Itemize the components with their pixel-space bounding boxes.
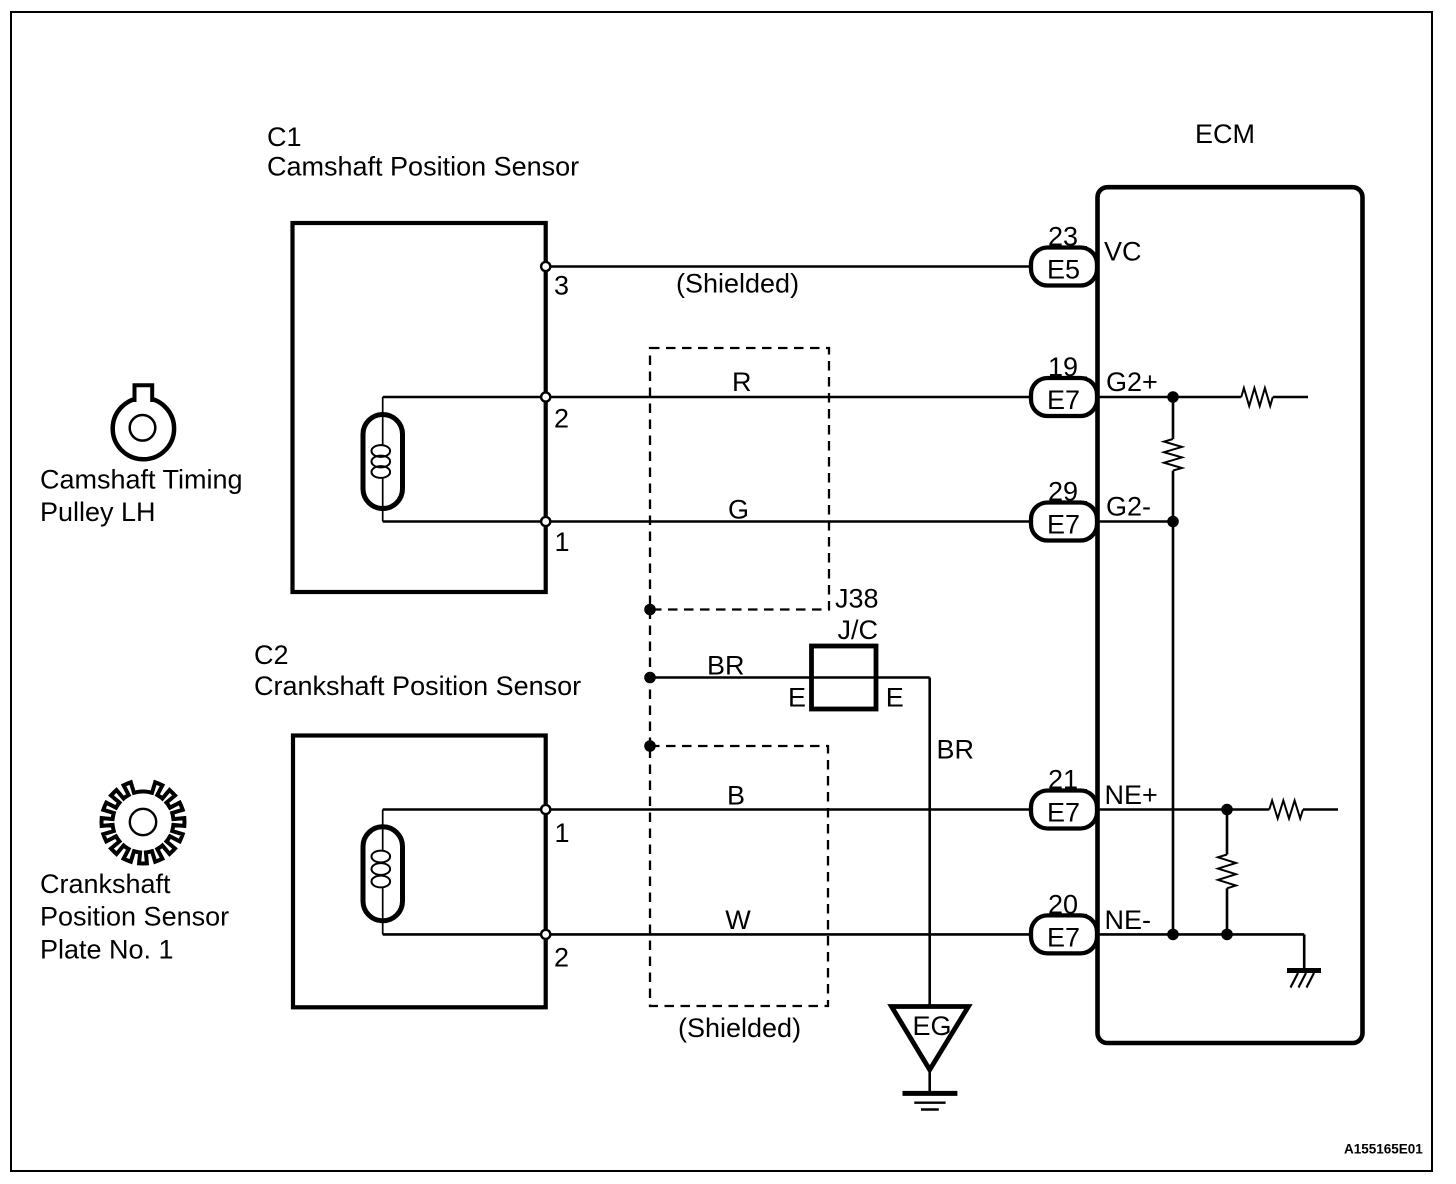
svg-text:W: W [725,905,751,935]
svg-text:19: 19 [1048,352,1078,382]
svg-text:NE-: NE- [1105,905,1152,935]
svg-text:R: R [732,367,752,397]
svg-text:2: 2 [554,943,569,973]
svg-text:E7: E7 [1047,385,1080,415]
svg-text:(Shielded): (Shielded) [678,1013,801,1043]
svg-text:E7: E7 [1047,510,1080,540]
svg-text:21: 21 [1048,765,1078,795]
svg-text:1: 1 [555,527,570,557]
svg-text:C2: C2 [254,640,289,670]
svg-text:Camshaft Timing: Camshaft Timing [40,465,243,495]
svg-text:E: E [886,682,904,712]
svg-text:ECM: ECM [1195,119,1255,149]
svg-text:Position Sensor: Position Sensor [40,902,229,932]
svg-text:A155165E01: A155165E01 [1344,1142,1423,1157]
svg-text:1: 1 [555,818,570,848]
svg-text:Pulley LH: Pulley LH [40,497,156,527]
svg-text:20: 20 [1048,889,1078,919]
svg-text:C1: C1 [267,122,302,152]
svg-text:3: 3 [554,271,569,301]
svg-text:BR: BR [707,651,745,681]
svg-text:BR: BR [937,735,975,765]
svg-text:VC: VC [1104,237,1142,267]
svg-text:23: 23 [1048,222,1078,252]
svg-text:29: 29 [1048,477,1078,507]
svg-text:E7: E7 [1047,922,1080,952]
svg-text:(Shielded): (Shielded) [676,269,799,299]
svg-text:Crankshaft: Crankshaft [40,869,171,899]
svg-text:J/C: J/C [838,615,879,645]
svg-text:Plate No. 1: Plate No. 1 [40,935,174,965]
svg-text:G2+: G2+ [1106,367,1158,397]
svg-text:J38: J38 [835,583,879,613]
svg-text:EG: EG [913,1011,952,1041]
svg-text:G: G [728,494,749,524]
svg-text:B: B [727,781,745,811]
svg-text:E7: E7 [1047,798,1080,828]
svg-text:Camshaft Position Sensor: Camshaft Position Sensor [267,152,579,182]
svg-text:NE+: NE+ [1105,780,1158,810]
svg-text:2: 2 [554,404,569,434]
svg-text:G2-: G2- [1106,492,1151,522]
svg-text:E5: E5 [1047,255,1080,285]
svg-text:Crankshaft Position Sensor: Crankshaft Position Sensor [254,671,581,701]
svg-text:E: E [788,682,806,712]
